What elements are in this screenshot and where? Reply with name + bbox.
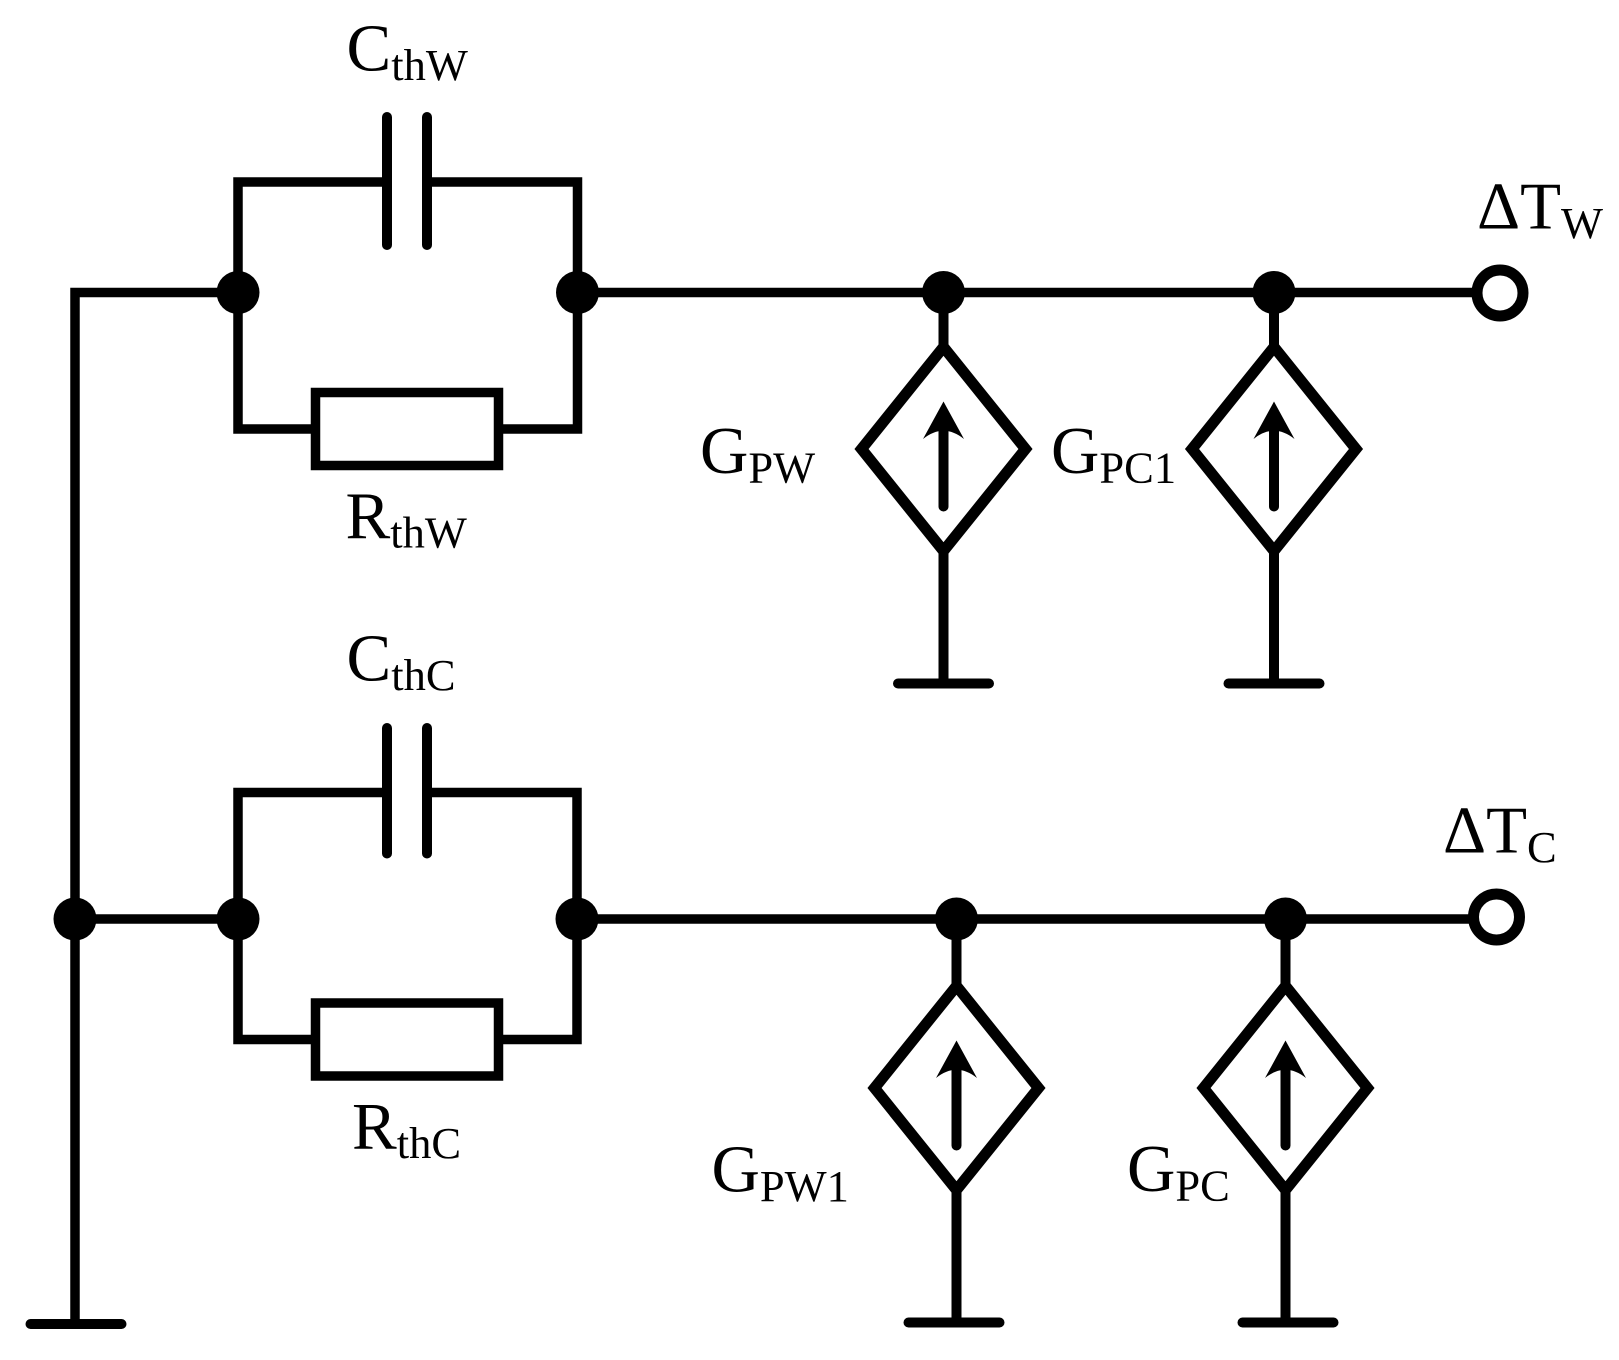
resistor RthW body xyxy=(316,393,499,466)
capacitor CthC plates xyxy=(387,728,427,854)
node GPC top junction dot xyxy=(1264,898,1307,941)
terminal DTC open circle xyxy=(1474,894,1520,940)
wire GPC1 upper stem xyxy=(1269,293,1279,353)
current source GPC1 diamond xyxy=(1192,347,1356,551)
node GPW1 top junction dot xyxy=(935,898,978,941)
current source GPW1 diamond xyxy=(875,986,1039,1190)
wire GPC1 lower stem xyxy=(1269,551,1279,684)
wire GPC lower stem xyxy=(1281,1190,1291,1323)
ground GPC xyxy=(1243,1318,1334,1328)
node C-right junction dot xyxy=(556,898,599,941)
ground GPW1 xyxy=(909,1318,1000,1328)
wire node row W horizontal xyxy=(578,288,1474,298)
current source GPC arrow xyxy=(1265,1041,1306,1146)
node GPC1 top junction dot xyxy=(1253,271,1296,314)
wire node row C horizontal xyxy=(577,914,1469,924)
wire GPW1 lower stem xyxy=(952,1190,962,1323)
ground GPC1 xyxy=(1229,679,1320,689)
ground GPW xyxy=(898,679,989,689)
current source GPW1 arrow xyxy=(936,1041,977,1146)
wire bottom loop right side with capacitor CthC right lead and resistor RthC right lead xyxy=(427,793,577,1040)
wire top loop left side with capacitor CthW left lead and resistor RthW left lead xyxy=(238,182,387,429)
current source GPC1 arrow xyxy=(1254,402,1295,507)
current source GPW diamond xyxy=(862,347,1026,551)
current source GPC diamond xyxy=(1204,986,1368,1190)
wire rail to node C xyxy=(75,914,238,924)
node W-left junction dot xyxy=(217,271,260,314)
current source GPW arrow xyxy=(923,402,964,507)
wire GPC upper stem xyxy=(1281,919,1291,991)
wire GPW1 upper stem xyxy=(952,919,962,991)
wire left rail vertical with top corner to node row W xyxy=(75,293,238,1325)
resistor RthC body xyxy=(316,1003,499,1076)
node C-left junction dot xyxy=(217,898,260,941)
wire bottom loop left side with capacitor CthC left lead and resistor RthC left lead xyxy=(238,793,387,1040)
wire GPW lower stem xyxy=(939,551,949,684)
ground rail bottom xyxy=(31,1319,122,1329)
terminal DTW open circle xyxy=(1477,270,1523,316)
wire GPW upper stem xyxy=(939,293,949,353)
node W-right junction dot xyxy=(556,271,599,314)
node rail-C junction dot xyxy=(54,898,97,941)
wire top loop right side with capacitor CthW right lead and resistor RthW right lead xyxy=(427,182,578,429)
node GPW top junction dot xyxy=(922,271,965,314)
capacitor CthW plates xyxy=(387,117,427,245)
